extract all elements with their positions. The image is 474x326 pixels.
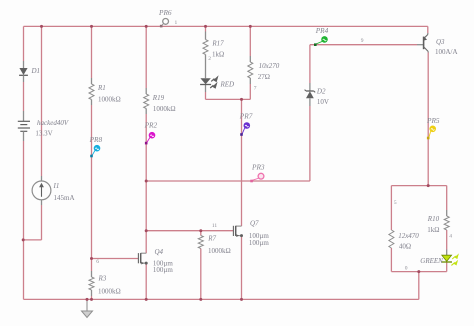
svg-text:6: 6 — [96, 259, 99, 265]
svg-text:D2: D2 — [316, 88, 326, 96]
svg-text:0: 0 — [405, 265, 408, 271]
svg-text:GREEN: GREEN — [420, 257, 443, 265]
svg-text:1kΩ: 1kΩ — [212, 50, 224, 58]
svg-text:I1: I1 — [53, 182, 60, 190]
svg-text:1: 1 — [175, 20, 178, 26]
svg-text:12x470: 12x470 — [398, 232, 419, 240]
svg-text:PR5: PR5 — [426, 116, 440, 125]
svg-text:PR2: PR2 — [144, 121, 158, 130]
svg-text:27Ω: 27Ω — [258, 73, 270, 81]
svg-text:100µm: 100µm — [153, 266, 174, 274]
svg-text:PR3: PR3 — [251, 162, 265, 171]
svg-text:PR4: PR4 — [315, 26, 329, 35]
svg-text:1000kΩ: 1000kΩ — [98, 96, 121, 104]
svg-text:Q7: Q7 — [250, 219, 259, 227]
svg-text:R19: R19 — [152, 94, 165, 102]
svg-text:D1: D1 — [31, 67, 41, 75]
svg-text:PR6: PR6 — [158, 8, 172, 17]
svg-text:4: 4 — [449, 234, 452, 240]
svg-text:R7: R7 — [207, 234, 216, 242]
svg-text:100A/A: 100A/A — [435, 48, 458, 56]
svg-text:1kΩ: 1kΩ — [427, 226, 439, 234]
svg-text:R1: R1 — [97, 84, 106, 92]
svg-text:5: 5 — [394, 200, 397, 206]
svg-text:Q3: Q3 — [436, 38, 445, 46]
svg-text:hacked40V: hacked40V — [37, 119, 69, 127]
svg-text:40Ω: 40Ω — [399, 242, 411, 250]
svg-text:Q4: Q4 — [155, 248, 164, 256]
svg-text:1000kΩ: 1000kΩ — [208, 247, 231, 255]
svg-text:11: 11 — [212, 223, 218, 229]
svg-text:R10: R10 — [427, 215, 440, 223]
svg-text:2: 2 — [208, 56, 211, 62]
svg-text:100µm: 100µm — [249, 239, 270, 247]
svg-text:10V: 10V — [317, 98, 329, 106]
svg-text:10x270: 10x270 — [259, 62, 280, 70]
svg-text:145mA: 145mA — [54, 194, 75, 202]
svg-text:RED: RED — [220, 81, 235, 89]
svg-text:R17: R17 — [211, 39, 224, 47]
svg-text:1000kΩ: 1000kΩ — [98, 287, 121, 295]
svg-text:PR7: PR7 — [239, 111, 253, 120]
svg-text:PR8: PR8 — [89, 135, 103, 144]
svg-text:R3: R3 — [98, 275, 107, 283]
svg-text:1000kΩ: 1000kΩ — [153, 105, 176, 113]
svg-text:7: 7 — [254, 85, 257, 91]
svg-text:13.3V: 13.3V — [35, 130, 52, 138]
svg-text:9: 9 — [361, 38, 364, 44]
